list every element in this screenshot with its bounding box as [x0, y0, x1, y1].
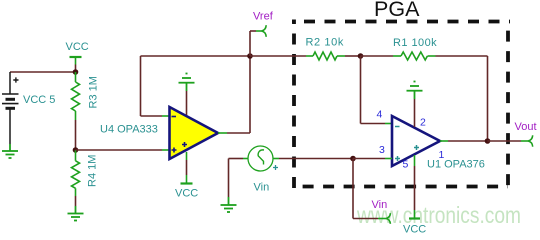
power VCC symbol top-left — [70, 57, 82, 65]
wire U4 top power pin — [186, 91, 188, 115]
wire R2 to node — [345, 55, 361, 57]
wire Vref stub — [249, 31, 251, 56]
resistor R4 1M — [72, 150, 80, 196]
wire output up to feedback node — [249, 56, 251, 133]
node output junction — [485, 138, 491, 144]
svg-text:U4 OPA333: U4 OPA333 — [100, 124, 158, 136]
battery VCC 5 — [2, 72, 19, 144]
wire feedback down to output — [487, 56, 489, 141]
resistor R2 10k — [306, 52, 345, 60]
svg-text:Vin: Vin — [254, 182, 270, 194]
ground above U1 (inverted) — [407, 82, 423, 100]
wire junction to U1 pin 3 — [353, 158, 385, 160]
wire node to R1 — [361, 55, 394, 57]
svg-text:R1 100k: R1 100k — [393, 37, 437, 49]
svg-text:4: 4 — [377, 109, 383, 121]
connector Vin — [378, 213, 390, 224]
ground above U4 (inverted) — [179, 74, 195, 92]
wire R1 to feedback corner — [436, 55, 488, 57]
svg-text:PGA: PGA — [374, 0, 420, 21]
ground below battery — [2, 144, 18, 158]
wire R3 bottom to node — [75, 120, 77, 150]
svg-text:VCC: VCC — [66, 41, 89, 53]
wire to Vout connector — [488, 140, 522, 142]
wire U1 bottom power pin 5 to VCC — [414, 155, 416, 166]
wire into PGA to R2 — [250, 55, 306, 57]
power VCC symbol below U1 — [409, 210, 420, 219]
op-amp U1 OPA376 — [392, 116, 440, 166]
wire junction down to Vin connector — [352, 159, 354, 219]
ground below R4 — [68, 206, 84, 221]
wire source right to junction — [273, 158, 279, 160]
svg-text:R4 1M: R4 1M — [87, 155, 99, 187]
resistor R3 1M — [72, 72, 80, 120]
svg-text:3: 3 — [379, 144, 385, 156]
node junction battery/R3/VCC — [73, 69, 79, 75]
node Vin junction — [350, 156, 356, 162]
svg-text:U1 OPA376: U1 OPA376 — [427, 159, 485, 171]
ground below source — [221, 197, 237, 212]
wire U4 - input — [140, 56, 142, 116]
plus mark of source — [273, 165, 278, 170]
svg-text:R2 10k: R2 10k — [306, 37, 344, 49]
node feedback/Vref junction — [247, 53, 253, 59]
wire R4 bottom to ground — [75, 196, 77, 206]
source Vin sine generator — [248, 146, 273, 171]
svg-text:Vout: Vout — [515, 121, 537, 133]
wire U4 bottom power pin to VCC — [186, 152, 188, 160]
wire U1 output — [440, 140, 448, 142]
svg-text:R3 1M: R3 1M — [88, 76, 100, 108]
power VCC symbol below U4 — [181, 175, 193, 184]
node R2/R1/pin4 junction — [358, 53, 364, 59]
wire node down to U1 pin 4 — [360, 56, 362, 124]
svg-text:VCC: VCC — [403, 224, 426, 234]
wire U4 output — [218, 132, 227, 134]
svg-text:5: 5 — [403, 159, 409, 171]
box PGA dashed — [292, 20, 510, 189]
svg-text:VCC 5: VCC 5 — [23, 94, 55, 106]
wire source left to ground — [243, 158, 248, 160]
connector Vref — [256, 25, 266, 37]
resistor R1 100k — [393, 52, 436, 60]
wire U1 top power pin 2 — [414, 99, 416, 127]
op-amp U4 OPA333 — [170, 107, 219, 159]
svg-text:VCC: VCC — [175, 188, 198, 200]
wire VCC stub — [75, 65, 77, 73]
wire divider node to U4 + input — [76, 149, 163, 151]
connector Vout — [521, 135, 533, 146]
svg-text:2: 2 — [420, 117, 426, 129]
svg-text:Vin: Vin — [372, 199, 388, 211]
wire feedback top — [141, 55, 251, 57]
wire battery top to VCC node — [10, 71, 76, 73]
node junction R3/R4/U4+ — [73, 147, 79, 153]
svg-text:Vref: Vref — [253, 11, 274, 23]
